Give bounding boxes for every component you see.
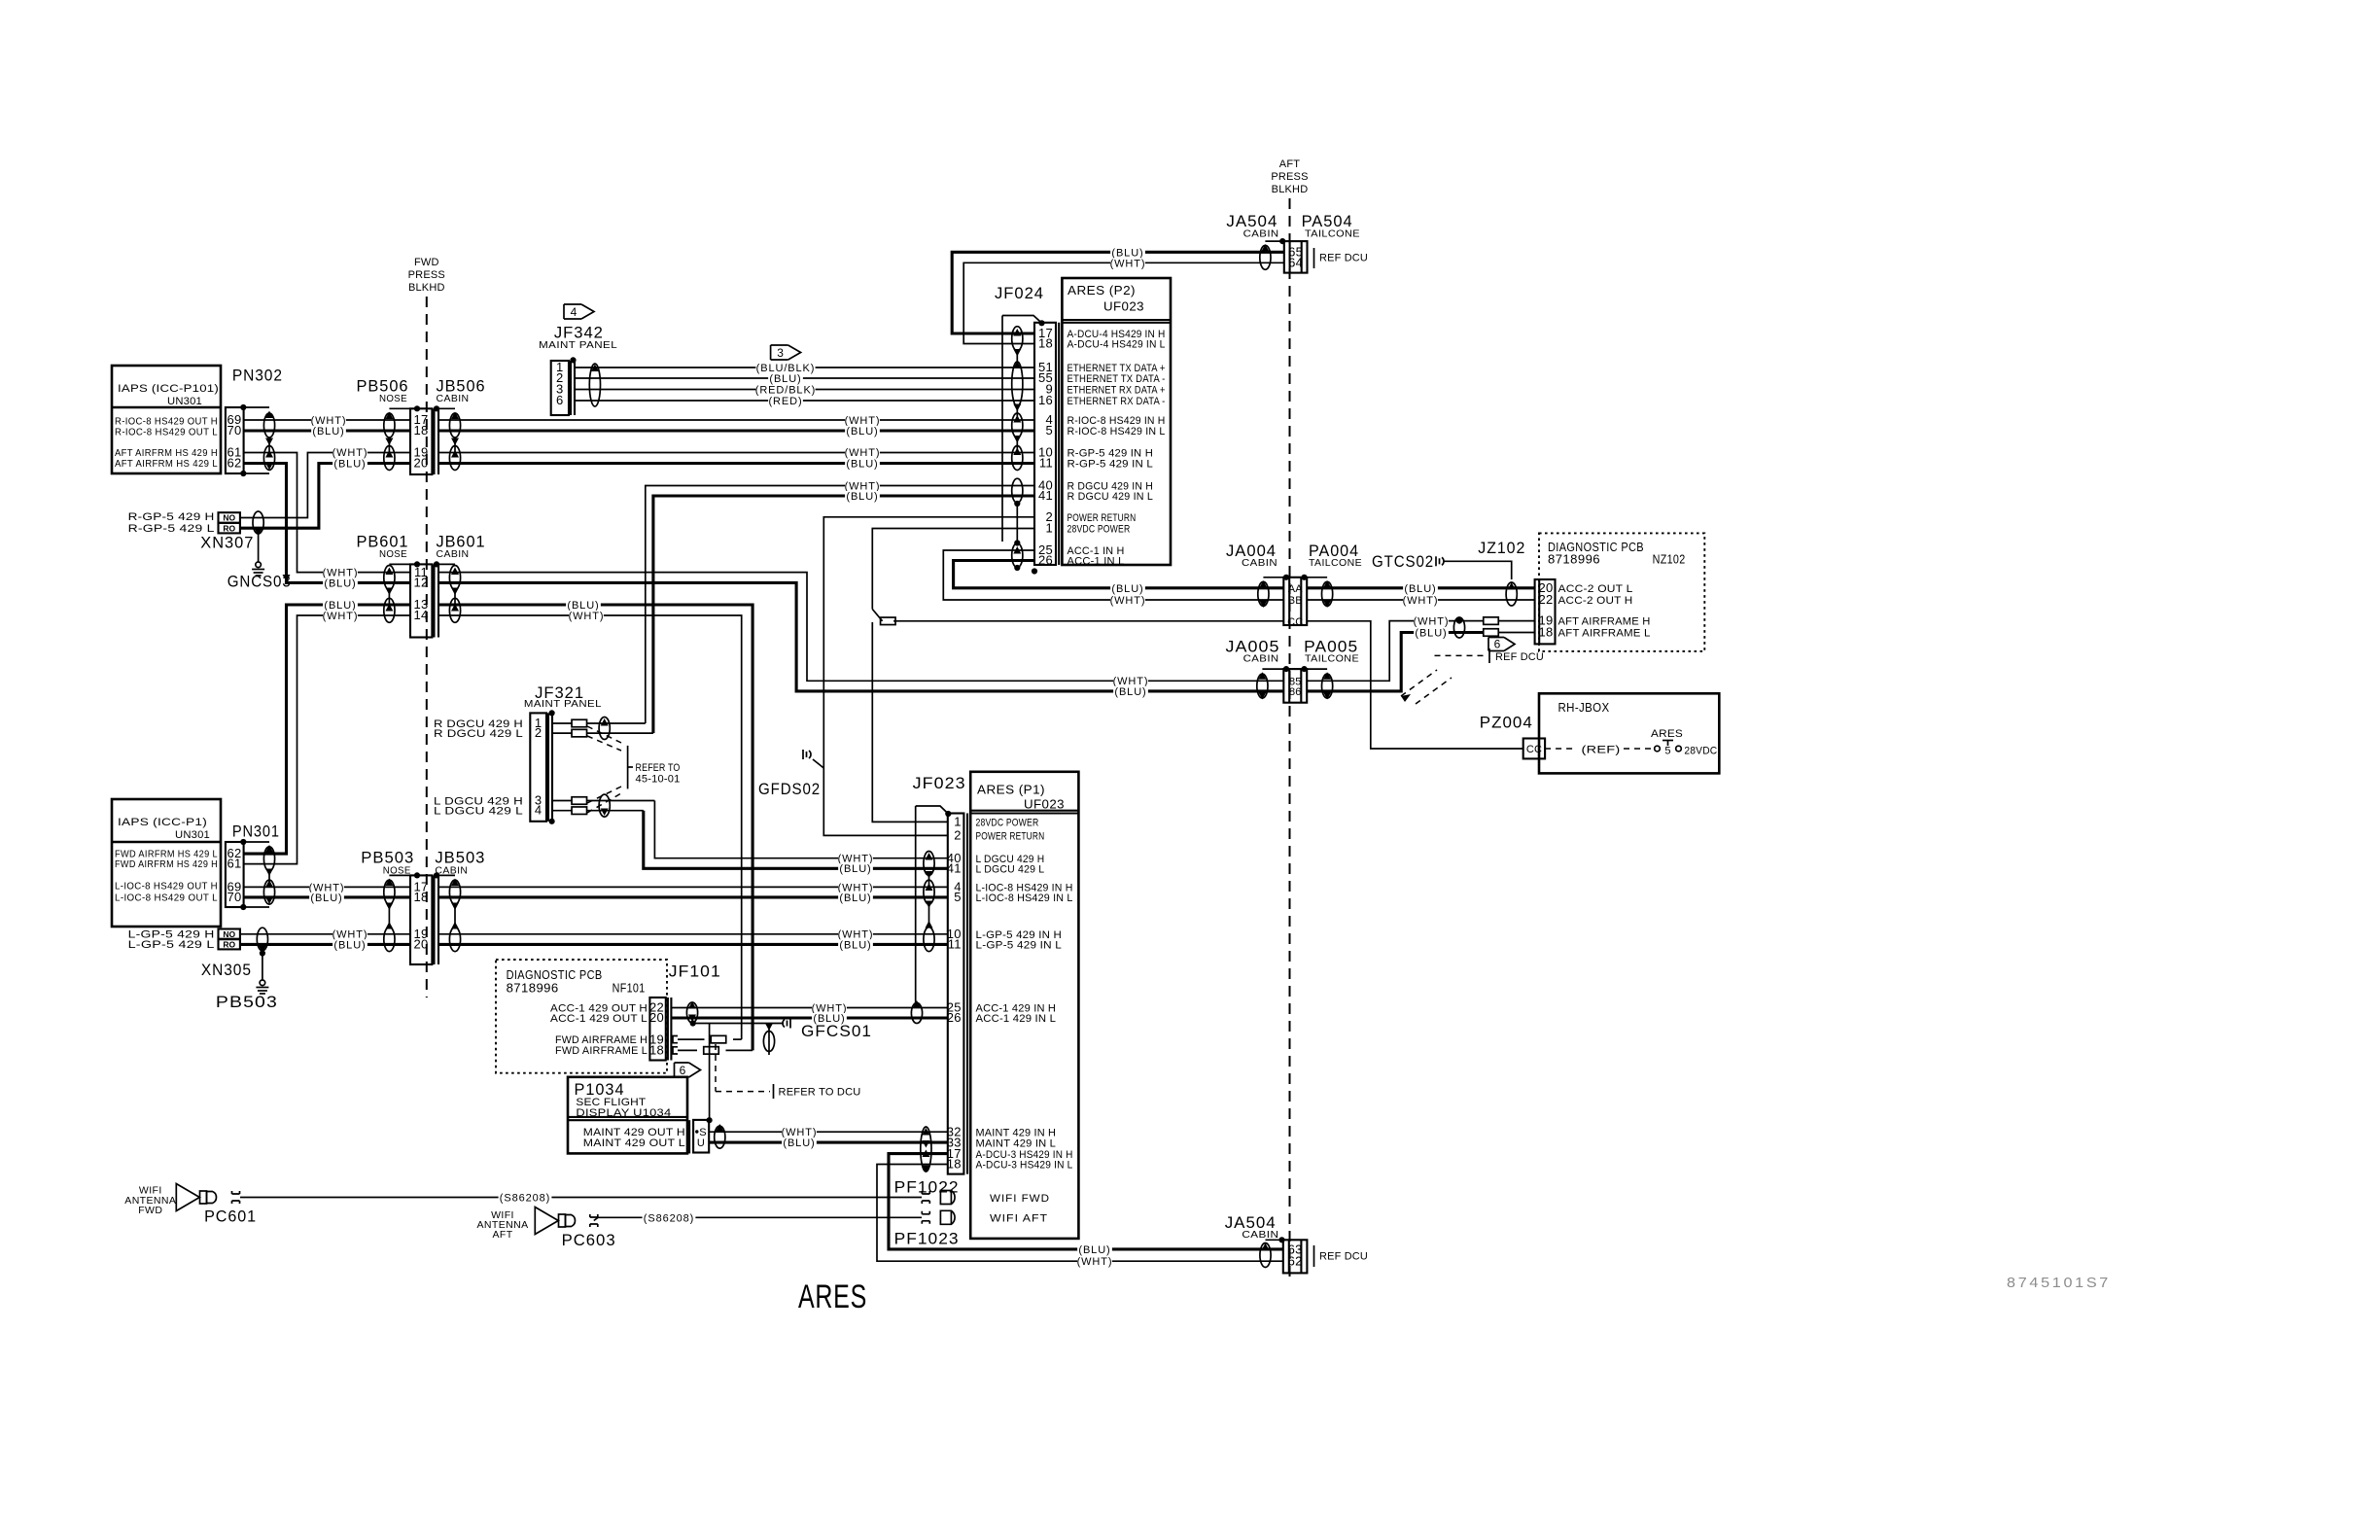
svg-text:2: 2 <box>535 725 542 740</box>
flag arrow 6 right <box>1488 638 1515 651</box>
NF101 ACC-1 shield and GFCS01 drain <box>688 1001 696 1009</box>
svg-text:FWD: FWD <box>138 1205 162 1216</box>
unit PN301 IAPS (ICC-P1) UN301 box <box>112 799 221 927</box>
P1034 shield riser <box>709 1024 711 1121</box>
svg-text:70: 70 <box>227 890 241 904</box>
svg-text:(BLU): (BLU) <box>783 1137 815 1149</box>
wire L-IOC-8 L PN301-70 to JF023-5 (BLU) <box>244 895 410 898</box>
svg-text:DIAGNOSTIC PCB: DIAGNOSTIC PCB <box>507 968 603 982</box>
wire ACC-1 IN H JF024-25 to JA004-BB (WHT) <box>943 550 1283 600</box>
wire MAINT 429 OUT L to JF023-33 (BLU) <box>709 1141 948 1144</box>
PN301 pin column 62 61 69 70 <box>226 842 244 907</box>
svg-text:CABIN: CABIN <box>1242 1229 1278 1241</box>
wire ACC-2 OUT L PA004 to NZ102-20 (BLU) <box>1307 586 1534 589</box>
wire AFT AIRFRM H PN302-61 down to PB601-11 <box>244 453 410 573</box>
svg-text:(BLU): (BLU) <box>846 491 878 503</box>
svg-text:MAINT PANEL: MAINT PANEL <box>539 339 617 351</box>
svg-text:28VDC POWER: 28VDC POWER <box>1067 524 1131 536</box>
svg-text:REF DCU: REF DCU <box>1319 1251 1368 1263</box>
wire JF321-1 R DGCU H to JF024-40 (WHT) <box>552 722 572 724</box>
wire A-DCU-3 L JF023-18 to JA504-62 (WHT) <box>877 1165 1283 1262</box>
svg-text:L-GP-5 429 IN L: L-GP-5 429 IN L <box>976 940 1063 952</box>
svg-text:(RED): (RED) <box>768 396 802 407</box>
svg-text:A-DCU-4 HS429 IN L: A-DCU-4 HS429 IN L <box>1067 339 1166 351</box>
svg-text:MAINT 429 OUT L: MAINT 429 OUT L <box>583 1137 685 1149</box>
wire WIFI FWD coax S86208 <box>232 1191 240 1204</box>
P1034 shield <box>716 1124 723 1132</box>
svg-text:L-GP-5 429 L: L-GP-5 429 L <box>128 939 215 951</box>
wire R-IOC-8 HS429 OUT H (WHT) PN302-69 to JF024-4 <box>244 419 410 421</box>
flag arrow 4 <box>564 304 594 319</box>
svg-text:(BLU): (BLU) <box>839 892 871 904</box>
svg-text:UF023: UF023 <box>1024 798 1065 812</box>
svg-text:62: 62 <box>1288 1253 1303 1268</box>
svg-text:IAPS (ICC-P101): IAPS (ICC-P101) <box>118 383 219 395</box>
JA504 bottom shield <box>1266 1239 1282 1241</box>
svg-text:18: 18 <box>1038 336 1053 351</box>
svg-text:(WHT): (WHT) <box>1110 595 1146 607</box>
NF101 FWD AIRFRAME stubs and ferrites <box>673 1036 678 1043</box>
svg-text:AFT AIRFRAME L: AFT AIRFRAME L <box>1558 628 1651 640</box>
wire JB601-14 down to NF101-19 ferrite (WHT) <box>438 615 742 1039</box>
svg-text:26: 26 <box>947 1010 962 1025</box>
svg-text:BLKHD: BLKHD <box>408 282 445 294</box>
wire A-DCU-3 H JF023-17 to JA504-63 (BLU) <box>889 1154 1283 1249</box>
svg-text:ARES (P1): ARES (P1) <box>977 784 1045 797</box>
REFER TO DCU dashed callout bottom <box>715 1044 717 1092</box>
svg-text:CC: CC <box>1526 744 1542 755</box>
svg-text:REFER TO: REFER TO <box>636 762 681 774</box>
wire WIFI AFT coax S86208 <box>590 1214 598 1227</box>
wire AFT AIRFRAME H JA005-85 to NZ102-19 (WHT) <box>1307 621 1484 682</box>
AFT AIRFRAME pair shield <box>1456 618 1462 624</box>
PB506 shields <box>389 407 417 409</box>
REF DCU dashed callout right <box>1435 654 1487 656</box>
JF321 ferrites and shields <box>572 719 587 727</box>
svg-text:CABIN: CABIN <box>437 393 470 404</box>
wire A-DCU-4 L JF024-18 to JA504-64 (WHT) <box>963 262 1284 343</box>
svg-text:(RED/BLK): (RED/BLK) <box>755 385 817 397</box>
svg-text:28VDC: 28VDC <box>1684 746 1717 757</box>
svg-text:11: 11 <box>948 937 962 952</box>
svg-text:BB: BB <box>1288 595 1303 607</box>
svg-text:ARES: ARES <box>1651 728 1683 740</box>
svg-text:WIFI AFT: WIFI AFT <box>990 1212 1048 1224</box>
NF101 pin column 22 20 19 18 <box>649 997 665 1061</box>
svg-text:2: 2 <box>954 828 962 843</box>
connector PZ004 CC <box>1523 739 1545 759</box>
wire JB601-11 to JA005-85 (WHT) <box>438 573 1283 682</box>
svg-text:(BLU): (BLU) <box>310 892 342 904</box>
svg-text:20: 20 <box>413 456 428 471</box>
svg-text:(BLU): (BLU) <box>839 939 871 951</box>
svg-text:WIFI FWD: WIFI FWD <box>990 1193 1050 1205</box>
JA005 shields <box>1262 668 1286 670</box>
wire JF342-3 (RED/BLK) to JF024-9 <box>575 389 1034 391</box>
svg-text:REF DCU: REF DCU <box>1319 253 1368 264</box>
svg-text:L-IOC-8 HS429 OUT L: L-IOC-8 HS429 OUT L <box>115 892 218 903</box>
wire 28VDC branch down to JF023-1 <box>872 622 948 822</box>
svg-text:PRESS: PRESS <box>1271 171 1308 183</box>
JF342 shield <box>591 365 599 372</box>
svg-text:PC603: PC603 <box>562 1231 616 1249</box>
svg-text:(WHT): (WHT) <box>845 447 881 459</box>
svg-text:ACC-2 OUT L: ACC-2 OUT L <box>1558 583 1633 595</box>
FWD PRESS BLKHD dashed line <box>426 297 428 997</box>
svg-text:64: 64 <box>1288 256 1303 270</box>
wire JF342-2 (BLU) to JF024-55 <box>575 377 1034 379</box>
svg-text:11: 11 <box>1039 456 1053 471</box>
svg-text:ETHERNET RX DATA -: ETHERNET RX DATA - <box>1067 396 1166 407</box>
svg-text:PRESS: PRESS <box>408 269 445 281</box>
wire ACC-1 429 OUT L NF101-20 to JF023-26 (BLU) <box>671 1016 947 1019</box>
svg-text:(BLU): (BLU) <box>312 426 344 437</box>
svg-text:(BLU): (BLU) <box>324 577 356 589</box>
svg-text:(BLU): (BLU) <box>333 939 366 951</box>
wire JB601-13 down to NF101-18 ferrite (BLU) <box>438 605 752 1050</box>
XN305 shield and ground PB503 <box>257 927 267 951</box>
svg-text:FWD: FWD <box>414 257 439 268</box>
wire ACC-2 OUT H PA004 to NZ102-22 (WHT) <box>1307 599 1534 601</box>
svg-text:(BLU): (BLU) <box>1078 1244 1110 1256</box>
svg-text:L DGCU 429 L: L DGCU 429 L <box>976 864 1045 876</box>
svg-text:5: 5 <box>954 890 962 904</box>
svg-text:ACC-1 429 IN L: ACC-1 429 IN L <box>976 1013 1057 1025</box>
JF023 shield ellipses <box>926 853 933 860</box>
svg-text:JF023: JF023 <box>913 774 966 792</box>
svg-text:18: 18 <box>413 423 428 437</box>
svg-text:NOSE: NOSE <box>379 393 407 404</box>
svg-text:R-IOC-8 HS429 IN L: R-IOC-8 HS429 IN L <box>1067 426 1166 437</box>
svg-text:18: 18 <box>947 1157 962 1172</box>
svg-text:(S86208): (S86208) <box>644 1212 694 1224</box>
svg-text:(BLU): (BLU) <box>333 458 366 470</box>
PB503 shields <box>389 874 417 876</box>
svg-text:28VDC POWER: 28VDC POWER <box>976 818 1039 829</box>
svg-text:R DGCU 429 L: R DGCU 429 L <box>434 728 523 740</box>
unit NF101 DIAGNOSTIC PCB dashed box <box>496 960 667 1073</box>
svg-text:(BLU): (BLU) <box>1415 628 1447 640</box>
wire JF342-1 (BLU/BLK) to JF024-51 <box>575 367 1034 368</box>
svg-text:(S86208): (S86208) <box>500 1193 550 1205</box>
svg-text:61: 61 <box>227 857 241 871</box>
wire FWD AIRFRM L PN301-62 up to PB601-13 (BLU) <box>244 605 410 854</box>
wire JF321-2 R DGCU L to JF024-41 (BLU) <box>552 732 572 734</box>
svg-text:ETHERNET RX DATA +: ETHERNET RX DATA + <box>1067 385 1166 397</box>
svg-text:IAPS (ICC-P1): IAPS (ICC-P1) <box>118 817 207 828</box>
wire FWD AIRFRM H PN301-61 up to PB601-14 (WHT) <box>244 615 410 864</box>
svg-text:UF023: UF023 <box>1103 300 1144 314</box>
wire L-IOC-8 H PN301-69 to JF023-4 (WHT) <box>244 886 410 888</box>
svg-text:PB503: PB503 <box>216 993 278 1011</box>
svg-text:(REF): (REF) <box>1582 745 1621 756</box>
svg-text:PC601: PC601 <box>204 1207 257 1226</box>
svg-text:CABIN: CABIN <box>437 548 470 560</box>
svg-text:(BLU): (BLU) <box>1404 583 1436 595</box>
svg-text:ACC-2 OUT H: ACC-2 OUT H <box>1558 595 1633 607</box>
svg-text:CABIN: CABIN <box>1243 228 1279 240</box>
svg-text:86: 86 <box>1289 686 1302 698</box>
svg-text:TAILCONE: TAILCONE <box>1305 653 1359 665</box>
svg-text:NOSE: NOSE <box>379 548 407 560</box>
svg-text:NO: NO <box>223 929 235 939</box>
svg-text:(WHT): (WHT) <box>1077 1256 1113 1268</box>
JF024 shield ellipses <box>1013 329 1021 336</box>
svg-text:NZ102: NZ102 <box>1653 553 1686 567</box>
PN302 shield drains <box>243 406 269 408</box>
svg-text:DISPLAY U1034: DISPLAY U1034 <box>576 1107 671 1119</box>
svg-text:(BLU): (BLU) <box>769 373 801 385</box>
wire JF321-3 L DGCU H to JF023-40 (WHT) <box>552 800 572 802</box>
PN302 pin column 69 70 61 62 <box>226 407 244 473</box>
JF024 pin column <box>1034 323 1056 565</box>
wire JF342-6 (RED) to JF024-16 <box>575 400 1034 402</box>
svg-text:18: 18 <box>649 1043 664 1058</box>
svg-text:R DGCU 429 IN L: R DGCU 429 IN L <box>1067 491 1154 503</box>
svg-text:JZ102: JZ102 <box>1478 539 1525 557</box>
svg-text:(BLU): (BLU) <box>1111 583 1143 595</box>
svg-text:REF DCU: REF DCU <box>1495 651 1544 663</box>
svg-text:8718996: 8718996 <box>1548 553 1600 567</box>
svg-text:TAILCONE: TAILCONE <box>1309 557 1362 569</box>
svg-text:5: 5 <box>1664 746 1670 757</box>
svg-text:70: 70 <box>227 423 241 437</box>
wire MAINT 429 OUT H to JF023-32 (WHT) <box>709 1131 948 1133</box>
svg-text:62: 62 <box>227 456 241 471</box>
svg-text:(BLU): (BLU) <box>839 863 871 875</box>
svg-text:AFT: AFT <box>492 1229 512 1241</box>
P1034 pin column S U <box>688 1120 690 1153</box>
svg-text:AFT AIRFRAME H: AFT AIRFRAME H <box>1558 616 1651 628</box>
svg-text:(WHT): (WHT) <box>1414 616 1450 628</box>
svg-text:REFER TO DCU: REFER TO DCU <box>779 1087 861 1099</box>
svg-text:ACC-1 IN L: ACC-1 IN L <box>1067 556 1125 568</box>
svg-text:U: U <box>697 1137 705 1149</box>
JF023 pin column <box>948 814 964 1174</box>
svg-text:POWER RETURN: POWER RETURN <box>1067 512 1137 524</box>
svg-text:ETHERNET TX DATA -: ETHERNET TX DATA - <box>1067 373 1166 385</box>
REF DCU callout bottom <box>1313 1245 1315 1267</box>
unit P1034 SEC FLIGHT DISPLAY U1034 <box>568 1077 687 1154</box>
wire GNCS03 to PB601-12 <box>292 581 321 583</box>
svg-text:PZ004: PZ004 <box>1480 714 1533 732</box>
svg-text:L-IOC-8 HS429 OUT H: L-IOC-8 HS429 OUT H <box>115 881 218 892</box>
switch GFDS02 shield tap <box>802 750 804 759</box>
svg-text:JF101: JF101 <box>669 962 721 981</box>
svg-text:6: 6 <box>680 1064 686 1077</box>
JF321 refer-to callout <box>587 726 621 743</box>
REF DCU callout top <box>1313 248 1315 268</box>
svg-text:NO: NO <box>223 513 235 523</box>
svg-text:TAILCONE: TAILCONE <box>1305 228 1360 240</box>
svg-text:20: 20 <box>649 1010 664 1025</box>
wire ACC-1 429 OUT H NF101-22 to JF023-25 (WHT) <box>671 1007 947 1009</box>
svg-text:PN302: PN302 <box>232 367 283 385</box>
svg-text:ARES: ARES <box>798 1278 867 1315</box>
svg-text:AFT AIRFRM HS 429 L: AFT AIRFRM HS 429 L <box>115 458 218 470</box>
svg-text:PN301: PN301 <box>232 822 280 841</box>
wire R-GP-5 429 H XN307-NO to JF024-10 <box>240 453 410 518</box>
wire CC feed into PZ004 <box>1307 621 1523 749</box>
svg-text:GFDS02: GFDS02 <box>758 780 821 798</box>
svg-text:R-IOC-8 HS429 OUT L: R-IOC-8 HS429 OUT L <box>115 426 218 437</box>
svg-text:MAINT PANEL: MAINT PANEL <box>524 698 602 710</box>
svg-text:GTCS02: GTCS02 <box>1372 552 1434 571</box>
svg-text:FWD AIRFRM HS 429 H: FWD AIRFRM HS 429 H <box>115 858 218 870</box>
JA004 shields <box>1263 577 1286 578</box>
svg-text:ACC-1 429 OUT L: ACC-1 429 OUT L <box>550 1013 647 1025</box>
svg-text:CABIN: CABIN <box>1242 557 1277 569</box>
svg-text:NF101: NF101 <box>612 982 646 996</box>
svg-text:(WHT): (WHT) <box>569 611 605 622</box>
RH-JBOX internal REF dashed and relay contact 5 <box>1545 748 1577 750</box>
wire AFT AIRFRM L PN302-62 down to PB601-12 <box>244 464 410 583</box>
svg-text:RH-JBOX: RH-JBOX <box>1558 701 1610 715</box>
svg-text:(WHT): (WHT) <box>1403 595 1439 607</box>
svg-text:R-GP-5 429 H: R-GP-5 429 H <box>128 511 215 523</box>
svg-text:MAINT 429 IN L: MAINT 429 IN L <box>976 1137 1057 1149</box>
FWD AIRFRAME shield drop <box>768 1024 770 1056</box>
svg-text:POWER RETURN: POWER RETURN <box>976 831 1045 843</box>
svg-text:AA: AA <box>1288 583 1304 595</box>
PN301 shield drains <box>243 841 269 843</box>
XN307 shield and ground GNCS03 <box>253 511 263 534</box>
svg-text:CC: CC <box>1287 616 1303 628</box>
unit RH-JBOX box <box>1539 693 1719 773</box>
svg-text:1: 1 <box>1045 521 1053 536</box>
wire JF321-4 L DGCU L to JF023-41 (BLU) <box>552 810 572 812</box>
wire POWER RETURN JF024-2 to JF023-2 via GFDS02 bus <box>823 517 1034 836</box>
svg-text:JF024: JF024 <box>995 284 1044 302</box>
JF024 entry bus and chamfer <box>1002 316 1041 323</box>
svg-text:18: 18 <box>413 890 428 904</box>
svg-text:14: 14 <box>413 608 428 622</box>
AFT PRESS BLKHD dashed line <box>1289 198 1291 1283</box>
wire L-GP-5 L XN305-RO to JF023-11 (BLU) <box>240 943 410 946</box>
svg-text:12: 12 <box>413 576 428 590</box>
svg-text:A-DCU-3 HS429 IN L: A-DCU-3 HS429 IN L <box>976 1160 1073 1172</box>
svg-text:5: 5 <box>1045 423 1053 437</box>
wire R-IOC-8 HS429 OUT L (BLU) PN302-70 to JF024-5 <box>244 429 410 432</box>
svg-text:BLKHD: BLKHD <box>1272 184 1309 195</box>
flag arrow 6 left <box>675 1063 701 1077</box>
svg-text:18: 18 <box>1538 625 1553 640</box>
wire ACC-1 IN L JF024-26 to JA004-AA (BLU) <box>954 561 1284 588</box>
wire 28VDC JF024-1 to switch <box>872 529 1034 610</box>
wire A-DCU-4 H JF024-17 to JA504-65 (BLU) <box>952 252 1284 333</box>
svg-text:(BLU): (BLU) <box>1114 686 1146 698</box>
svg-text:41: 41 <box>1038 488 1053 503</box>
wire AFT AIRFRAME L JA005-86 to NZ102-18 (BLU) <box>1307 633 1484 691</box>
svg-text:ARES (P2): ARES (P2) <box>1067 284 1136 297</box>
svg-text:45-10-01: 45-10-01 <box>636 774 681 786</box>
svg-text:L-IOC-8 HS429 IN L: L-IOC-8 HS429 IN L <box>976 892 1073 904</box>
svg-text:GNCS03: GNCS03 <box>227 573 292 591</box>
svg-text:AFT: AFT <box>1279 158 1300 170</box>
svg-text:PF1023: PF1023 <box>894 1230 960 1248</box>
svg-text:(WHT): (WHT) <box>323 611 359 622</box>
JF023 entry bus and chamfer <box>916 806 948 814</box>
svg-text:20: 20 <box>413 937 428 952</box>
wire CC feed to JA004-CC <box>893 620 1283 622</box>
JA504 top shield <box>1265 240 1282 242</box>
svg-text:(BLU): (BLU) <box>846 426 878 437</box>
svg-text:FWD AIRFRAME H: FWD AIRFRAME H <box>555 1034 647 1046</box>
svg-text:UN301: UN301 <box>175 829 210 841</box>
svg-text:XN307: XN307 <box>200 534 254 552</box>
unit PN302 IAPS (ICC-P101) UN301 box <box>112 366 221 473</box>
svg-text:R-GP-5 429 IN L: R-GP-5 429 IN L <box>1067 459 1154 471</box>
svg-text:RO: RO <box>223 523 235 533</box>
svg-text:FWD AIRFRAME L: FWD AIRFRAME L <box>555 1045 647 1057</box>
unit NZ102 DIAGNOSTIC PCB dashed box <box>1539 533 1704 651</box>
svg-text:(BLU): (BLU) <box>846 458 878 470</box>
svg-text:1: 1 <box>954 815 962 829</box>
svg-text:UN301: UN301 <box>167 396 202 407</box>
svg-text:6: 6 <box>556 393 564 407</box>
wire L-GP-5 H XN305-NO to JF023-10 (WHT) <box>240 933 410 935</box>
svg-text:16: 16 <box>1038 393 1053 407</box>
NZ102 pin column 20 22 19 18 <box>1535 579 1556 644</box>
svg-text:6: 6 <box>1494 637 1501 650</box>
svg-text:8718996: 8718996 <box>507 982 559 996</box>
wire JB601-12 to JA005-86 (BLU) <box>438 582 1283 691</box>
switch and fuse on CC feed <box>872 610 882 621</box>
wire R-GP-5 429 L XN307-RO to JF024-11 <box>240 464 410 529</box>
flag arrow 3 <box>771 345 801 360</box>
svg-text:26: 26 <box>1038 553 1053 568</box>
svg-text:GFCS01: GFCS01 <box>801 1022 872 1040</box>
svg-text:L DGCU 429 L: L DGCU 429 L <box>434 806 523 818</box>
PB601 shields <box>389 563 417 565</box>
svg-text:22: 22 <box>1538 592 1553 607</box>
svg-text:8745101S7: 8745101S7 <box>2007 1275 2111 1291</box>
svg-text:PF1022: PF1022 <box>894 1178 960 1197</box>
svg-text:RO: RO <box>223 940 235 950</box>
svg-text:XN305: XN305 <box>201 961 252 979</box>
svg-text:4: 4 <box>535 803 542 818</box>
svg-text:CABIN: CABIN <box>1243 653 1279 665</box>
svg-text:3: 3 <box>777 346 784 360</box>
svg-text:(WHT): (WHT) <box>332 447 368 459</box>
svg-text:4: 4 <box>571 305 577 319</box>
svg-text:(WHT): (WHT) <box>1110 258 1146 269</box>
svg-text:41: 41 <box>947 861 962 876</box>
